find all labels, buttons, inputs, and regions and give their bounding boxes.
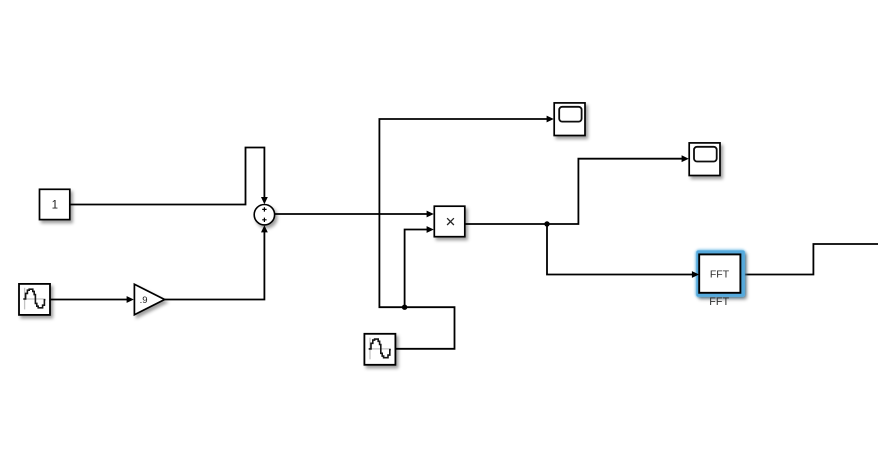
svg-text:.9: .9 — [140, 295, 148, 306]
svg-text:FFT: FFT — [709, 296, 729, 308]
svg-text:FFT: FFT — [710, 269, 730, 281]
svg-text:1: 1 — [52, 200, 58, 212]
